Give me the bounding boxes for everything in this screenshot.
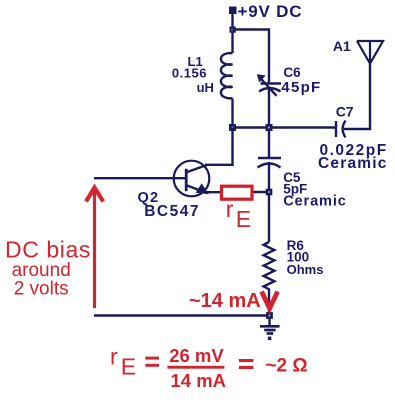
wire below L1 (231, 99, 233, 128)
svg-text:r: r (226, 196, 234, 222)
arrow DC bias (red) (86, 188, 103, 309)
svg-text:45pF: 45pF (281, 79, 321, 96)
svg-text:E: E (121, 353, 136, 379)
wire rE to C5 node (252, 191, 269, 193)
capacitor C6 variable (261, 82, 282, 84)
wire to C6 branch (233, 30, 270, 84)
node top junction (230, 27, 236, 33)
wire below C6 (268, 88, 270, 128)
svg-text:C7: C7 (336, 104, 354, 120)
capacitor C5 (258, 157, 281, 159)
node junction right (266, 124, 273, 131)
svg-text:DC bias: DC bias (5, 237, 91, 263)
svg-text:Ceramic: Ceramic (283, 193, 347, 209)
svg-text:r: r (110, 344, 118, 370)
svg-text:BC547: BC547 (144, 203, 200, 220)
svg-text:0.156: 0.156 (172, 65, 207, 80)
wire emitter (206, 191, 220, 193)
svg-text:E: E (236, 206, 251, 232)
svg-text:Ceramic: Ceramic (318, 155, 388, 172)
svg-text:14 mA: 14 mA (171, 370, 227, 391)
svg-text:2 volts: 2 volts (14, 278, 69, 299)
svg-text:Ohms: Ohms (287, 262, 324, 277)
resistor rE red box (222, 186, 253, 199)
resistor R6 (264, 242, 275, 316)
node emitter junction (266, 189, 273, 196)
svg-text:uH: uH (197, 80, 214, 95)
node junction left (229, 124, 236, 131)
arrow current ~14mA (red) (262, 292, 278, 309)
wire top vertical (231, 14, 233, 53)
power +9V DC square (229, 7, 237, 15)
wire node line (233, 126, 337, 128)
capacitor C7 (335, 121, 337, 137)
wire collector (205, 128, 233, 165)
transistor Q2 (174, 161, 210, 197)
wire C5 vertical (268, 131, 270, 158)
inductor L1 (221, 53, 233, 98)
svg-text:+9V DC: +9V DC (238, 2, 303, 21)
wire C7 to antenna (344, 64, 370, 129)
svg-text:26 mV: 26 mV (169, 345, 224, 366)
ground (268, 319, 270, 326)
node ground junction (266, 312, 273, 319)
svg-text:~14 mA: ~14 mA (189, 290, 261, 312)
svg-text:~2 Ω: ~2 Ω (265, 356, 307, 377)
wire base (94, 177, 186, 179)
svg-text:A1: A1 (333, 38, 351, 54)
antenna A1 (357, 41, 383, 64)
wire bottom line (94, 314, 270, 316)
